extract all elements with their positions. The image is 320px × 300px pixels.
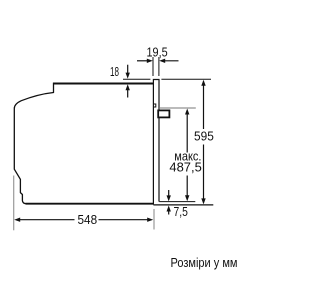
svg-text:548: 548	[78, 213, 98, 227]
svg-text:Розміри у мм: Розміри у мм	[171, 256, 238, 270]
svg-text:19,5: 19,5	[147, 45, 168, 59]
svg-text:595: 595	[194, 129, 214, 143]
svg-text:18: 18	[110, 65, 119, 79]
svg-text:7,5: 7,5	[174, 205, 188, 219]
svg-text:487,5: 487,5	[169, 160, 201, 174]
